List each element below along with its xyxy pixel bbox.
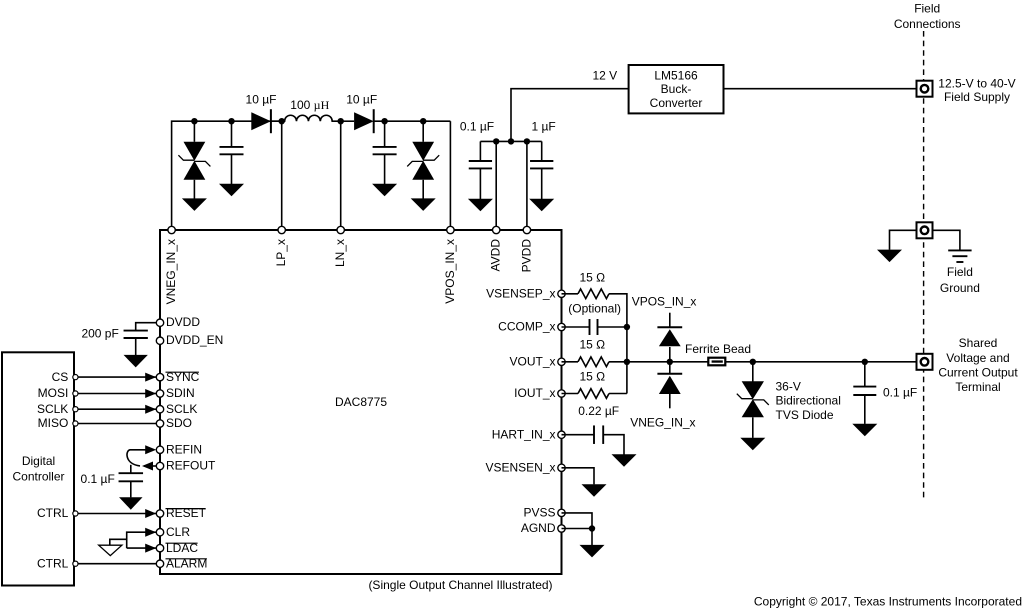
- earth ground symbol (Field Ground): [948, 250, 971, 262]
- wire VOUT_x to resistor R2: [562, 361, 579, 363]
- ground below TVS D7: [740, 438, 765, 451]
- wire CLR to common tie: [127, 532, 157, 548]
- wire rail to capacitor C1: [231, 121, 233, 147]
- svg-text:Ground: Ground: [940, 281, 980, 295]
- svg-text:12.5-V to 40-V: 12.5-V to 40-V: [938, 76, 1015, 90]
- arrowhead into SDIN: [145, 389, 156, 398]
- wire common tie to logic-low symbol: [110, 539, 127, 545]
- pin CS on controller: [73, 375, 78, 380]
- svg-text:MOSI: MOSI: [38, 386, 69, 400]
- pin SDO: [156, 420, 163, 427]
- junction on rail at TVS D1: [191, 118, 197, 124]
- svg-text:SCLK: SCLK: [166, 402, 197, 416]
- svg-text:0.22 µF: 0.22 µF: [578, 404, 619, 418]
- pin RESET: [156, 510, 163, 517]
- svg-text:VNEG_IN_x: VNEG_IN_x: [630, 416, 695, 430]
- svg-text:Bidirectional: Bidirectional: [776, 394, 841, 408]
- pin PVDD (top): [523, 226, 530, 233]
- svg-text:200 pF: 200 pF: [81, 327, 118, 341]
- junction output line at TVS D7: [750, 359, 756, 365]
- wire PVSS to AGND tie: [562, 513, 593, 529]
- svg-text:0.1 µF: 0.1 µF: [883, 385, 917, 399]
- terminal field ground: [917, 222, 933, 238]
- wire REFOUT to REFIN loopback: [127, 450, 146, 466]
- svg-text:10 µF: 10 µF: [346, 92, 377, 106]
- wire AGND to tie: [562, 528, 593, 530]
- svg-text:Current Output: Current Output: [938, 366, 1018, 380]
- wire DVDD pin to capacitor C5: [136, 323, 160, 331]
- pin DVDD: [156, 319, 163, 326]
- resistor R2 15 Ω: [578, 357, 609, 367]
- pin PVSS: [558, 509, 565, 516]
- junction AVDD on rail: [493, 138, 499, 144]
- svg-text:DVDD: DVDD: [166, 315, 200, 329]
- svg-text:0.1 µF: 0.1 µF: [460, 119, 494, 133]
- pin ALARM: [156, 560, 163, 567]
- svg-text:Ferrite Bead: Ferrite Bead: [685, 342, 751, 356]
- wire rail to PVDD pin: [526, 141, 528, 230]
- pin HART_IN_x: [558, 431, 565, 438]
- wire C4 to ground: [541, 168, 543, 199]
- svg-text:VOUT_x: VOUT_x: [509, 355, 555, 369]
- svg-text:AGND: AGND: [521, 521, 556, 535]
- junction on rail at C2: [381, 118, 387, 124]
- svg-text:Terminal: Terminal: [955, 380, 1000, 394]
- svg-text:Converter: Converter: [650, 96, 703, 110]
- wire rail to TVS D1: [193, 121, 195, 142]
- svg-text:36-V: 36-V: [776, 379, 801, 393]
- wire VPOS_IN_x rail corner to pin: [449, 121, 451, 230]
- wire C8 to ground: [864, 395, 866, 424]
- block U2 LM5166 buck converter: [629, 65, 724, 113]
- node field-connections dashed boundary line: [923, 31, 925, 499]
- wire output line to TVS D7: [752, 362, 754, 382]
- svg-text:Shared: Shared: [959, 336, 998, 350]
- wire D5 cathode to VPOS_IN_x net: [669, 313, 671, 328]
- svg-text:12 V: 12 V: [593, 69, 618, 83]
- svg-text:LP_x: LP_x: [274, 239, 288, 266]
- capacitor C2 10 µF: [373, 147, 397, 154]
- pin SCLK on controller: [73, 407, 78, 412]
- capacitor C6 0.1 µF: [119, 473, 144, 481]
- overline on SYNC: [166, 371, 199, 373]
- svg-text:CS: CS: [52, 370, 69, 384]
- wire tie to ground: [591, 529, 593, 546]
- wire IOUT_x to resistor R3: [562, 393, 579, 395]
- wire C9 to ground arrow: [603, 435, 624, 455]
- inductor L1 100 µH: [282, 115, 341, 121]
- svg-text:(Single Output Channel Illustr: (Single Output Channel Illustrated): [368, 578, 552, 592]
- svg-text:Field: Field: [947, 265, 973, 279]
- pin CLR: [156, 529, 163, 536]
- svg-text:Connections: Connections: [894, 17, 961, 31]
- junction output line at clamp diodes: [667, 359, 673, 365]
- capacitor C3 0.1 µF: [469, 161, 492, 168]
- wire field ground terminal to ground arrow: [890, 230, 917, 250]
- ferrite bead FB1: [708, 358, 725, 366]
- wire VSENSEN_x to ground: [562, 468, 595, 485]
- ground below VSENSEN_x: [582, 484, 607, 497]
- pin AVDD (top): [493, 226, 500, 233]
- wire TVS D1 to ground: [193, 180, 195, 199]
- wire MISO to SDO: [76, 423, 157, 425]
- TVS diode D1 (input clamp): [178, 142, 210, 180]
- capacitor C7 CCOMP (optional): [590, 319, 598, 335]
- wire HART_IN_x to capacitor C9: [562, 434, 595, 436]
- resistor R3 15 Ω: [578, 389, 609, 399]
- wire LN_x to diode D3: [341, 120, 354, 122]
- pin SDIN: [156, 390, 163, 397]
- svg-text:VSENSEN_x: VSENSEN_x: [485, 461, 555, 475]
- block digital controller: [2, 352, 74, 585]
- wire CTRL to ALARM: [76, 563, 157, 565]
- wire VNEG_IN_x pin to top rail: [172, 121, 282, 230]
- wire C1 to ground: [231, 154, 233, 184]
- wire D3 to VPOS corner: [374, 120, 451, 122]
- svg-text:100 µH: 100 µH: [290, 98, 329, 112]
- svg-text:LN_x: LN_x: [333, 239, 347, 267]
- ground below C2: [372, 184, 397, 197]
- wire output line R2 to ferrite bead: [609, 361, 708, 363]
- svg-text:SDO: SDO: [166, 416, 192, 430]
- svg-text:IOUT_x: IOUT_x: [514, 386, 555, 400]
- wire CCOMP_x to capacitor C7: [562, 326, 591, 328]
- wire rail end to capacitor C4: [541, 141, 543, 161]
- junction output line at C8: [862, 359, 868, 365]
- arrowhead into SYNC: [145, 373, 156, 382]
- pin VSENSEN_x: [558, 464, 565, 471]
- junction 12V feed on rail: [508, 138, 514, 144]
- node LP_x junction: [279, 118, 285, 124]
- svg-text:REFOUT: REFOUT: [166, 459, 216, 473]
- wire clamp diode D6 anode: [669, 394, 671, 408]
- diode D6 to VNEG_IN_x: [657, 374, 682, 394]
- wire CTRL to RESET: [76, 513, 157, 515]
- pin MOSI on controller: [73, 391, 78, 396]
- wire TVS D7 to ground: [752, 417, 754, 438]
- pin CTRL on controller: [73, 561, 78, 566]
- pin DVDD_EN: [156, 337, 163, 344]
- pin LDAC: [156, 544, 163, 551]
- pin CCOMP_x: [558, 323, 565, 330]
- overline on ALARM: [166, 558, 207, 560]
- junction on rail at C1: [228, 118, 234, 124]
- pin LP_x (top): [278, 226, 285, 233]
- svg-text:MISO: MISO: [38, 416, 69, 430]
- svg-text:VPOS_IN_x: VPOS_IN_x: [632, 295, 697, 309]
- ground at field ground terminal: [877, 250, 902, 263]
- svg-text:Field: Field: [914, 1, 940, 15]
- capacitor C5 200 pF: [124, 331, 148, 338]
- wire ferrite bead to output terminal: [725, 361, 916, 363]
- terminal shared output: [917, 354, 933, 370]
- junction CCOMP on feedback column: [624, 324, 630, 330]
- wire rail to capacitor C2: [384, 121, 386, 147]
- ground below C4: [529, 199, 554, 212]
- pin SCLK: [156, 406, 163, 413]
- svg-text:0.1 µF: 0.1 µF: [81, 472, 115, 486]
- svg-text:Copyright © 2017, Texas Instru: Copyright © 2017, Texas Instruments Inco…: [754, 595, 1022, 609]
- svg-text:AVDD: AVDD: [489, 239, 503, 272]
- junction VOUT on feedback column: [624, 359, 630, 365]
- arrowhead into SCLK: [145, 405, 156, 414]
- capacitor C1 10 µF: [220, 147, 244, 154]
- wire loop to capacitor C6: [130, 465, 132, 473]
- arrowhead on REFOUT wire: [142, 462, 153, 471]
- ground below C9: [612, 454, 637, 467]
- wire VSENSEP_x to resistor R1: [562, 293, 579, 295]
- svg-text:VNEG_IN_x: VNEG_IN_x: [164, 239, 178, 304]
- svg-text:1 µF: 1 µF: [532, 119, 556, 133]
- junction PVDD on rail: [524, 138, 530, 144]
- wire D2 to LP_x node: [271, 120, 282, 122]
- wire C3 to ground: [479, 168, 481, 199]
- wire AVDD-PVDD supply rail: [480, 140, 541, 142]
- svg-text:Voltage and: Voltage and: [946, 351, 1009, 365]
- svg-text:TVS Diode: TVS Diode: [776, 408, 834, 422]
- arrowhead into RESET: [145, 509, 156, 518]
- capacitor C4 1 µF: [530, 161, 553, 168]
- ground below C1: [219, 184, 244, 197]
- wire LDAC from common tie: [127, 547, 157, 549]
- wire D6 cathode to output line: [669, 362, 671, 374]
- wire field ground terminal to earth: [933, 230, 960, 250]
- ground below AGND: [580, 545, 605, 558]
- diode D3 (series blocking): [354, 109, 374, 133]
- block U1 DAC8775: [160, 230, 562, 574]
- wire R3 to feedback column: [609, 393, 627, 395]
- svg-text:CTRL: CTRL: [37, 556, 69, 570]
- pin MISO on controller: [73, 421, 78, 426]
- svg-text:Buck-: Buck-: [661, 82, 692, 96]
- wire REFOUT stub: [144, 465, 156, 467]
- svg-text:SCLK: SCLK: [37, 402, 68, 416]
- junction on rail at TVS D4: [420, 118, 426, 124]
- pin VNEG_IN_x (top): [168, 226, 175, 233]
- svg-text:15 Ω: 15 Ω: [579, 370, 605, 384]
- wire MOSI to SDIN: [76, 393, 157, 395]
- wire LN_x node to pin: [340, 121, 342, 230]
- ground below C5: [124, 355, 148, 368]
- pin REFOUT: [156, 462, 163, 469]
- resistor R1 15 Ω: [578, 289, 609, 299]
- wire rail end to capacitor C3: [479, 141, 481, 161]
- overline on RESET: [166, 508, 206, 510]
- svg-text:DAC8775: DAC8775: [335, 395, 387, 409]
- wire C5 to ground: [135, 338, 137, 355]
- TVS diode D4 (input clamp): [407, 142, 439, 180]
- svg-text:(Optional): (Optional): [568, 301, 621, 315]
- svg-text:HART_IN_x: HART_IN_x: [492, 427, 556, 441]
- svg-text:VSENSEP_x: VSENSEP_x: [486, 287, 555, 301]
- svg-text:Field Supply: Field Supply: [944, 90, 1010, 104]
- wire LP_x node to pin: [281, 121, 283, 230]
- arrowhead into LDAC: [145, 544, 156, 553]
- wire 12 V from LM5166 to rail: [511, 89, 629, 142]
- logic-low (open ground) symbol: [99, 545, 122, 555]
- ground below TVS D4: [411, 198, 436, 211]
- ground below C6: [119, 497, 143, 510]
- ground below C8: [852, 424, 877, 437]
- wire LM5166 output to field supply terminal: [724, 88, 917, 90]
- pin LN_x (top): [337, 226, 344, 233]
- overline on LDAC: [166, 542, 198, 544]
- svg-text:PVDD: PVDD: [519, 239, 533, 273]
- capacitor C8 0.1 µF: [853, 387, 876, 395]
- svg-text:CLR: CLR: [166, 525, 190, 539]
- svg-text:Digital: Digital: [22, 454, 55, 468]
- svg-text:15 Ω: 15 Ω: [579, 271, 605, 285]
- pin CTRL on controller: [73, 511, 78, 516]
- wire C7 to feedback column: [598, 326, 627, 328]
- wire rail to AVDD pin: [495, 141, 497, 230]
- ground below TVS D1: [182, 198, 207, 211]
- wire output line to capacitor C8: [864, 362, 866, 387]
- svg-text:VPOS_IN_x: VPOS_IN_x: [443, 239, 457, 304]
- pin AGND: [558, 525, 565, 532]
- svg-text:DVDD_EN: DVDD_EN: [166, 333, 223, 347]
- wire clamp diode D5 anode: [669, 347, 671, 362]
- pin VSENSEP_x: [558, 290, 565, 297]
- svg-text:PVSS: PVSS: [523, 506, 555, 520]
- pin VOUT_x: [558, 358, 565, 365]
- terminal field supply: [917, 81, 933, 97]
- node LN_x junction: [338, 118, 344, 124]
- wire CS to SYNC: [76, 376, 157, 378]
- wire R1 to feedback column: [609, 294, 627, 394]
- capacitor C9 0.22 µF: [594, 425, 603, 444]
- svg-text:SDIN: SDIN: [166, 386, 195, 400]
- ground below C3: [468, 199, 493, 212]
- svg-text:CCOMP_x: CCOMP_x: [498, 320, 555, 334]
- pin SYNC: [156, 373, 163, 380]
- pin VPOS_IN_x (top): [447, 226, 454, 233]
- svg-text:CTRL: CTRL: [37, 506, 69, 520]
- svg-text:Controller: Controller: [12, 469, 64, 483]
- diode D5 to VPOS_IN_x: [657, 327, 682, 346]
- pin IOUT_x: [558, 390, 565, 397]
- wire rail to TVS D4: [422, 121, 424, 142]
- TVS diode D7 36-V bidirectional: [737, 381, 769, 417]
- svg-text:REFIN: REFIN: [166, 443, 202, 457]
- junction PVSS-AGND: [589, 525, 595, 531]
- arrowhead into REFIN: [145, 445, 156, 454]
- wire TVS D4 to ground: [422, 180, 424, 199]
- svg-text:10 µF: 10 µF: [246, 92, 277, 106]
- svg-text:LM5166: LM5166: [654, 69, 698, 83]
- wire C6 to ground: [130, 481, 132, 497]
- diode D2 (series blocking): [251, 109, 271, 133]
- wire SCLK to SCLK: [76, 408, 157, 410]
- svg-text:15 Ω: 15 Ω: [579, 338, 605, 352]
- arrowhead into CLR: [145, 528, 156, 537]
- pin REFIN: [156, 446, 163, 453]
- wire C2 to ground: [384, 154, 386, 184]
